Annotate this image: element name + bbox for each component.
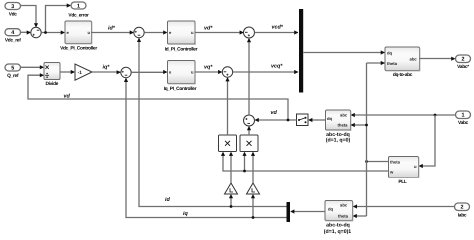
wire dq-to-abc to port Vabc* (420, 57, 456, 61)
wire S1 to Vdc_PI_Controller with branch to Vdc_error port (41, 3, 71, 34)
svg-text:Vdc: Vdc (9, 12, 18, 18)
sum S2 id error (134, 27, 144, 37)
svg-text:3: 3 (11, 4, 14, 10)
svg-text:Iq_PI_Controller: Iq_PI_Controller (164, 86, 197, 92)
svg-text:vd*: vd* (204, 26, 213, 32)
input port 2 Iabc (455, 203, 470, 218)
svg-text:iq*: iq* (103, 65, 111, 71)
input port 1 Vabc (456, 111, 471, 126)
gain L left (rotated up) (225, 183, 238, 194)
svg-text:1: 1 (462, 113, 465, 119)
wire Iq_PI to sum S5, label vq* (195, 65, 222, 75)
svg-text:u: u (414, 164, 417, 169)
svg-text:u: u (191, 30, 194, 35)
wire S2 to Id_PI_Controller (144, 30, 167, 34)
wire S3 to Iq_PI_Controller (131, 70, 167, 74)
wire gain L right output to mult right (251, 152, 255, 183)
wire abc-to-dq1 dq output to demux (290, 209, 325, 213)
svg-text:dq: dq (328, 207, 334, 212)
svg-text:(d=1, q=0): (d=1, q=0) (326, 138, 351, 144)
svg-text:Vdc_PI_Controller: Vdc_PI_Controller (60, 46, 97, 52)
wire Vdc to sum S1 (21, 6, 39, 28)
svg-text:1: 1 (77, 3, 80, 9)
wire S5 to mux, label vcq* (233, 64, 299, 75)
wire gain L left output to mult left (229, 152, 233, 183)
wire mult right output to S6 (247, 126, 251, 135)
svg-text:Divide: Divide (45, 81, 58, 87)
multiplier block left (219, 135, 237, 152)
svg-text:2: 2 (461, 205, 464, 211)
gain L right (rotated up) (247, 183, 260, 194)
svg-text:2: 2 (462, 57, 465, 63)
wire vd feedback loop to Divide input 2 (28, 73, 288, 120)
svg-text:Vdc_error: Vdc_error (68, 13, 89, 19)
svg-text:PLL: PLL (398, 179, 407, 185)
wire abc-to-dq dq output to selector (308, 118, 325, 122)
wire S4 to mux, label vcd* (255, 25, 299, 35)
wire S6 up to S4 (247, 38, 251, 115)
selector block (297, 114, 309, 126)
svg-text:w: w (389, 170, 394, 175)
svg-text:vcd*: vcd* (272, 25, 284, 31)
svg-text:vd: vd (271, 110, 278, 116)
wire Vdc_PI to sum S2, label id* (92, 26, 134, 35)
svg-text:Q_ref: Q_ref (7, 73, 19, 79)
output port 1 Vdc_error (68, 2, 89, 19)
svg-text:-1: -1 (78, 70, 83, 76)
wire Divide to gain -1 (60, 70, 75, 74)
wire demux id to sum S2, label id, branch to gain L left (137, 38, 287, 208)
block Id_PI_Controller (165, 21, 198, 53)
svg-text:u: u (191, 70, 194, 75)
gain -1 (75, 64, 92, 80)
svg-text:abc: abc (410, 56, 418, 61)
svg-text:theta: theta (387, 61, 398, 66)
wire Q_ref to Divide input 1 (21, 65, 45, 69)
svg-text:vcq*: vcq* (271, 64, 283, 70)
theta rail vertical with branches (351, 61, 385, 218)
sum S4 vcd (244, 27, 255, 38)
wire PLL theta to theta rail (365, 160, 388, 163)
sum S1 Vdc error (31, 27, 41, 37)
svg-text:abc-to-dq: abc-to-dq (326, 223, 350, 229)
wire Vabc branch to PLL input (419, 115, 435, 168)
wire PLL w to multiplier inputs (221, 152, 389, 173)
block PLL (389, 157, 419, 186)
svg-text:dq: dq (327, 116, 333, 121)
demux bar (287, 202, 291, 222)
block abc-to-dq (top) (326, 110, 351, 144)
wire demux iq to sum S3, label iq, branch to gain L right (124, 78, 287, 219)
wire Vdc_ref to sum S1 (21, 30, 31, 34)
svg-text:iq: iq (183, 211, 188, 217)
svg-text:id: id (165, 197, 170, 203)
sum S3 iq error (121, 67, 131, 77)
svg-text:vq*: vq* (204, 65, 213, 71)
svg-text:theta: theta (338, 214, 349, 219)
svg-text:Id_PI_Controller: Id_PI_Controller (165, 47, 198, 53)
wire mux to dq-to-abc (304, 50, 385, 54)
svg-text:abc: abc (340, 203, 348, 208)
sum S5 vcq (222, 67, 232, 77)
input port 4 Vdc_ref (5, 29, 21, 44)
mux bar (299, 9, 303, 93)
wire gain to sum S3, label iq* (92, 65, 121, 75)
svg-text:Vabc*: Vabc* (457, 64, 469, 70)
input port 3 Vdc (5, 3, 21, 18)
svg-text:dq: dq (387, 51, 393, 56)
block Vdc_PI_Controller (60, 21, 97, 52)
multiplier block right (240, 135, 258, 152)
wire Id_PI to sum S4, label vd* (195, 26, 244, 35)
block abc-to-dq1 (bottom) (324, 201, 353, 235)
svg-text:4: 4 (11, 30, 14, 36)
svg-text:abc: abc (340, 113, 348, 118)
wire mult left output to S5 (225, 77, 229, 135)
wire Vabc port to abc-to-dq abc input (351, 113, 456, 117)
svg-text:vd: vd (64, 94, 71, 100)
block Divide (44, 63, 60, 88)
block dq-to-abc (385, 47, 420, 78)
svg-text:dq-to-abc: dq-to-abc (393, 72, 413, 78)
input port 5 Q_ref (5, 64, 21, 79)
svg-text:id*: id* (108, 26, 116, 32)
svg-text:Vabc: Vabc (458, 120, 469, 126)
block Iq_PI_Controller (164, 61, 197, 93)
wire selector to sum S6, label vd, junction to vd loop (255, 110, 297, 122)
wire Iabc port to abc-to-dq1 abc input (353, 204, 455, 208)
svg-text:5: 5 (11, 65, 14, 71)
output port 2 Vabc* (456, 55, 471, 70)
svg-text:u: u (88, 30, 91, 35)
svg-text:Vdc_ref: Vdc_ref (5, 38, 21, 44)
sum S6 vd feedforward (244, 115, 255, 126)
svg-text:theta: theta (338, 123, 349, 128)
svg-text:(d=1, q=0)1: (d=1, q=0)1 (324, 229, 352, 235)
svg-text:Iabc: Iabc (458, 212, 467, 218)
svg-text:theta: theta (390, 160, 401, 165)
